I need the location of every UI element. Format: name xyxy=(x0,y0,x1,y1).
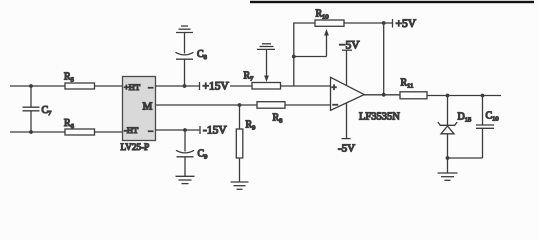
wire R10 right lead to +5V node xyxy=(344,22,393,24)
ground below C9 xyxy=(176,176,195,183)
top page rule xyxy=(250,1,534,3)
svg-text:–: – xyxy=(148,82,154,92)
potentiometer R7 wiper arrow xyxy=(264,49,269,82)
svg-text:R11: R11 xyxy=(401,78,414,90)
ground above C8 (inverted) xyxy=(176,26,193,54)
wire +15V rail (pin + to op-amp +) xyxy=(156,85,200,87)
node +5V terminal tick xyxy=(392,19,394,28)
svg-text:R9: R9 xyxy=(246,120,256,132)
node: C8 junction on +15V rail xyxy=(183,84,187,88)
node: C7 top junction xyxy=(29,84,33,88)
resistor R9 (vertical) xyxy=(236,105,255,182)
svg-text:–: – xyxy=(148,125,154,135)
node -15V terminal tick xyxy=(199,126,201,134)
ground below D15 xyxy=(438,158,458,180)
wire R10 left lead + feedback vertical to op-amp + rail xyxy=(294,23,315,86)
svg-text:+: + xyxy=(332,83,337,93)
transducer U1 LV25-P body xyxy=(123,77,156,141)
potentiometer R7 xyxy=(244,71,281,90)
ground below R9 xyxy=(231,182,249,189)
wire -15V rail (pin - to tick) xyxy=(156,129,201,131)
wire op-amp output rail xyxy=(364,94,400,96)
svg-text:C7: C7 xyxy=(42,105,53,117)
wire D15/C10 bottom tie xyxy=(448,157,483,159)
node: +5V junction xyxy=(382,21,386,25)
svg-text:D15: D15 xyxy=(458,112,472,124)
capacitor C9 (polarized) xyxy=(176,130,207,176)
resistor R5 xyxy=(64,72,95,90)
svg-text:+15V: +15V xyxy=(203,81,230,93)
capacitor C8 (polarized) xyxy=(176,49,207,86)
svg-text:+5V: +5V xyxy=(396,18,417,30)
svg-text:-HT: -HT xyxy=(124,125,139,135)
node: wiper to feedback junction xyxy=(292,55,296,59)
svg-text:-5V: -5V xyxy=(338,143,355,155)
resistor R8 xyxy=(257,102,285,125)
node: output/feedback junction xyxy=(382,93,386,97)
node: bottom tie junction xyxy=(446,156,450,160)
potentiometer R10 wiper arrow xyxy=(294,29,329,57)
op-amp bottom supply pin -5V xyxy=(338,103,355,155)
svg-text:M: M xyxy=(143,101,153,113)
svg-text:R8: R8 xyxy=(273,113,283,125)
ground above R7 wiper (inverted) xyxy=(257,44,275,50)
node: D15 junction xyxy=(446,94,450,98)
wire top-left input rail xyxy=(10,85,65,87)
svg-text:-15V: -15V xyxy=(203,125,227,137)
svg-text:LV25-P: LV25-P xyxy=(121,142,150,152)
resistor R6 xyxy=(64,118,95,135)
node: C9 junction on -15V rail xyxy=(183,128,187,132)
wire M output rail (pin M to op-amp minus) xyxy=(156,104,258,106)
wire +5V junction down to output xyxy=(383,23,385,95)
resistor R11 xyxy=(400,78,427,99)
node: C10 junction xyxy=(481,94,485,98)
node: R9 junction on M rail xyxy=(238,103,242,107)
svg-text:R5: R5 xyxy=(64,72,74,84)
svg-text:−5V: −5V xyxy=(339,40,360,52)
svg-text:–: – xyxy=(332,99,338,109)
svg-text:R7: R7 xyxy=(244,71,255,83)
svg-text:C9: C9 xyxy=(198,149,208,161)
potentiometer R10 xyxy=(315,9,344,27)
node: C7 bottom junction xyxy=(29,130,33,134)
capacitor C7 xyxy=(23,86,53,132)
op-amp U2 triangle xyxy=(331,77,365,110)
op-amp top supply pin -5V xyxy=(339,40,360,86)
svg-text:C10: C10 xyxy=(486,111,499,123)
svg-text:C8: C8 xyxy=(197,49,207,61)
capacitor C10 xyxy=(476,96,499,159)
svg-text:R10: R10 xyxy=(316,9,329,21)
wire bottom-left input rail xyxy=(10,131,65,133)
svg-text:LF3535N: LF3535N xyxy=(359,112,400,123)
svg-text:R6: R6 xyxy=(64,118,75,130)
zener diode D15 xyxy=(438,96,471,159)
node +15V terminal tick xyxy=(199,82,201,90)
svg-text:+HT: +HT xyxy=(124,82,141,92)
